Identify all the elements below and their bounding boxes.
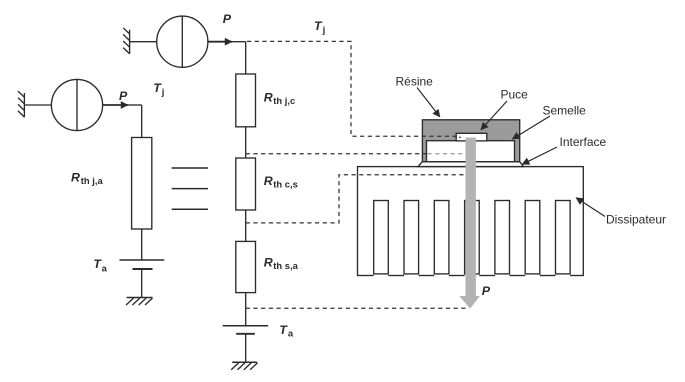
arrow to chip (481, 101, 507, 130)
svg-text:Dissipateur: Dissipateur (606, 213, 666, 227)
battery B1 (T_a source) (120, 260, 165, 269)
ground G2 (231, 362, 257, 370)
current source I2 (157, 16, 208, 67)
svg-text:P: P (482, 284, 491, 298)
svg-text:R: R (264, 255, 273, 269)
ground G1 (126, 298, 152, 306)
wire R_th c,s to R_th s,a (245, 210, 247, 241)
dashed links (246, 41, 468, 308)
svg-text:th j,c: th j,c (273, 95, 295, 106)
dashed net case : segment inside baseplate (428, 153, 466, 155)
wall anchor W1 (left source) (18, 91, 24, 117)
svg-text:P: P (119, 89, 128, 103)
dashed net case : node to baseplate (246, 153, 427, 155)
wire battery B2 to ground (245, 334, 247, 362)
resin block (Résine) (422, 120, 519, 162)
svg-text:a: a (288, 327, 294, 338)
wire node down to resistor R_th j,a (141, 105, 143, 138)
svg-text:j: j (161, 86, 165, 97)
wire source I2 to node T_j, with arrow (208, 41, 232, 43)
current source I1 (51, 79, 102, 130)
svg-text:Résine: Résine (396, 75, 434, 89)
wire battery to ground (141, 269, 143, 298)
arrow to baseplate (513, 116, 551, 139)
baseplate (Semelle) (427, 141, 515, 162)
resistor R_th j,a (132, 138, 152, 230)
svg-text:th s,a: th s,a (273, 260, 298, 271)
wire source I1 to node, with arrow (103, 104, 128, 106)
resistor R_th s,a (236, 241, 256, 292)
wire node down to resistor R_th j,c (245, 42, 247, 74)
dashed net T_j : node to chip (247, 41, 456, 136)
package drawing (358, 120, 584, 277)
wire wall W2 to source I2 (130, 41, 157, 43)
resistor R_th j,c (236, 74, 256, 127)
heatsink body (Dissipateur) (358, 167, 584, 276)
label arrows (417, 88, 605, 217)
svg-text:T: T (279, 323, 288, 337)
package flange (semelle base) (418, 162, 524, 167)
thick heat-flow arrow P (459, 138, 480, 309)
svg-text:R: R (264, 174, 273, 188)
wall anchor W2 (upper source) (123, 28, 129, 54)
chip dot (459, 137, 461, 138)
dashed net ambient : node to arrow tip (246, 307, 468, 309)
equivalence bars (172, 168, 208, 209)
svg-text:th c,s: th c,s (273, 179, 298, 190)
wire resistor to battery (141, 229, 143, 260)
svg-text:j: j (322, 24, 326, 35)
battery B2 (T_a source) (223, 326, 269, 334)
svg-text:a: a (102, 262, 108, 273)
svg-text:Interface: Interface (560, 135, 607, 149)
arrow to interface (522, 147, 557, 164)
wire R_th j,c to R_th c,s (245, 127, 247, 158)
svg-text:Puce: Puce (501, 88, 529, 102)
wire wall W1 to source I1 (24, 104, 51, 106)
arrow to resin (417, 88, 440, 117)
svg-text:th j,a: th j,a (81, 175, 104, 186)
resistor R_th c,s (236, 158, 256, 210)
wire R_th s,a to battery B2 (245, 293, 247, 326)
svg-text:P: P (223, 12, 232, 26)
dashed net sink : node to interface plane (246, 175, 466, 223)
svg-text:R: R (71, 170, 80, 184)
svg-text:R: R (264, 91, 273, 105)
svg-text:Semelle: Semelle (543, 104, 587, 118)
arrow to heatsink (576, 198, 605, 217)
heatsink fin slots (374, 201, 570, 278)
chip (Puce) (456, 133, 487, 141)
